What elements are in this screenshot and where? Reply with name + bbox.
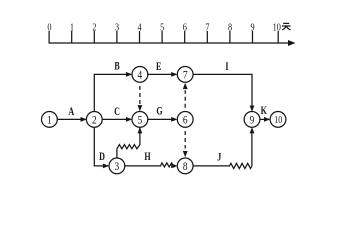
arrowhead C into node5 xyxy=(126,117,132,122)
svg-text:2: 2 xyxy=(92,22,96,34)
svg-text:10: 10 xyxy=(274,114,282,125)
arrowhead into node8 top xyxy=(183,151,188,157)
wire J: node8 right with wavy float then up to node9 xyxy=(193,133,252,168)
tick 6 xyxy=(184,31,186,43)
node 7 xyxy=(177,67,193,83)
svg-text:8: 8 xyxy=(228,22,232,34)
svg-text:5: 5 xyxy=(160,22,164,34)
svg-text:J: J xyxy=(217,151,221,164)
svg-text:7: 7 xyxy=(183,68,188,81)
tick 5 xyxy=(161,31,163,43)
node 9 xyxy=(244,112,260,128)
wavy free-float link node3 up to node5 xyxy=(117,127,140,158)
svg-text:H: H xyxy=(144,151,150,164)
svg-text:10: 10 xyxy=(273,22,281,34)
svg-text:D: D xyxy=(99,151,105,164)
wire G: node5 to node6 xyxy=(148,118,176,120)
node 6 xyxy=(177,112,193,128)
wire I: node7 right then down to node9 xyxy=(193,74,252,105)
wire A: node1 to node2 xyxy=(57,118,85,120)
node 8 xyxy=(177,158,193,174)
wire E: node4 to node7 xyxy=(148,73,176,75)
svg-text:8: 8 xyxy=(183,160,188,173)
arrowhead into node5 top xyxy=(138,105,143,111)
arrowhead J into node9 bottom xyxy=(250,127,255,133)
axis unit 天 (days) drawn as strokes xyxy=(282,23,291,30)
svg-text:4: 4 xyxy=(138,68,143,81)
svg-text:3: 3 xyxy=(115,22,119,34)
wire H: node3 to node8 with wavy float xyxy=(125,163,176,167)
arrowhead into node7 bottom xyxy=(183,83,188,89)
svg-text:9: 9 xyxy=(251,22,255,34)
dashed link node4 to node5 xyxy=(139,86,141,104)
svg-text:E: E xyxy=(156,61,162,74)
svg-text:C: C xyxy=(114,106,120,119)
arrowhead into node5 bottom xyxy=(138,127,143,133)
wire B: node2 up then right to node4 xyxy=(94,74,131,111)
svg-text:A: A xyxy=(68,106,74,119)
svg-text:4: 4 xyxy=(138,22,142,34)
arrowhead E into node7 xyxy=(171,72,177,77)
svg-text:6: 6 xyxy=(183,113,188,126)
arrowhead G into node6 xyxy=(171,117,177,122)
arrowhead D into node3 xyxy=(103,164,109,169)
svg-text:1: 1 xyxy=(70,22,74,34)
svg-text:3: 3 xyxy=(115,160,120,173)
tick 3 xyxy=(116,31,118,43)
tick 8 xyxy=(229,31,231,43)
wire D: node2 down then right to node3 xyxy=(94,127,108,166)
svg-text:B: B xyxy=(114,60,120,73)
node 3 xyxy=(109,158,125,174)
svg-text:I: I xyxy=(225,61,228,74)
node 1 xyxy=(42,112,58,128)
svg-text:5: 5 xyxy=(138,113,143,126)
tick 7 xyxy=(206,31,208,43)
svg-text:0: 0 xyxy=(47,22,51,34)
tick 4 xyxy=(139,31,141,43)
svg-text:9: 9 xyxy=(250,113,255,126)
tick 9 xyxy=(252,31,254,43)
arrowhead B into node4 xyxy=(126,72,132,77)
tick 2 xyxy=(93,31,95,43)
wire C: node2 to node5 xyxy=(102,118,131,120)
arrowhead I into node9 top xyxy=(250,106,255,112)
svg-text:K: K xyxy=(261,105,267,118)
arrowhead H into node8 xyxy=(171,164,177,169)
time axis baseline xyxy=(49,42,290,44)
tick 1 xyxy=(71,31,73,43)
node 4 xyxy=(132,67,148,83)
arrowhead A into node2 xyxy=(81,117,87,122)
svg-text:1: 1 xyxy=(47,113,52,126)
svg-text:7: 7 xyxy=(205,22,209,34)
dashed link node6 to node7 xyxy=(184,90,186,108)
svg-text:6: 6 xyxy=(183,22,187,34)
node 2 xyxy=(86,112,102,128)
svg-text:G: G xyxy=(156,105,162,118)
wire K: node9 to node10 xyxy=(260,118,269,120)
axis arrowhead xyxy=(288,40,296,46)
dashed link node6 to node8 xyxy=(184,131,186,149)
svg-text:2: 2 xyxy=(92,113,97,126)
node 10 xyxy=(270,112,286,128)
node 5 xyxy=(132,112,148,128)
tick 0 xyxy=(48,31,50,44)
arrowhead K into node10 xyxy=(264,117,270,122)
tick 10 xyxy=(277,31,279,43)
